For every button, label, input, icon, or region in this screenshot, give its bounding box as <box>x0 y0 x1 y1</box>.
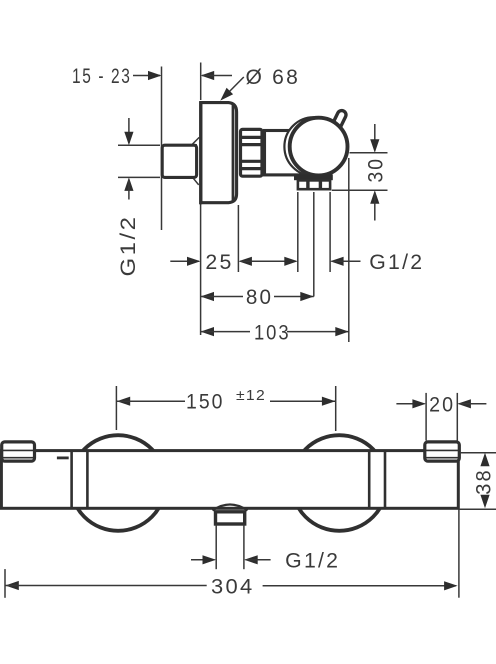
svg-text:G1/2: G1/2 <box>369 251 424 274</box>
svg-text:20: 20 <box>429 394 455 417</box>
svg-text:38: 38 <box>473 468 496 495</box>
svg-text:Ø 68: Ø 68 <box>246 66 301 89</box>
svg-text:30: 30 <box>365 157 388 183</box>
svg-text:G1/2: G1/2 <box>117 215 140 277</box>
svg-text:150: 150 <box>186 391 225 414</box>
svg-text:25: 25 <box>205 251 233 274</box>
svg-text:G1/2: G1/2 <box>285 550 340 573</box>
svg-text:304: 304 <box>211 575 255 598</box>
svg-text:80: 80 <box>246 286 273 309</box>
svg-text:103: 103 <box>254 322 291 345</box>
svg-text:±12: ±12 <box>236 388 266 404</box>
svg-text:15 - 23: 15 - 23 <box>72 65 132 88</box>
